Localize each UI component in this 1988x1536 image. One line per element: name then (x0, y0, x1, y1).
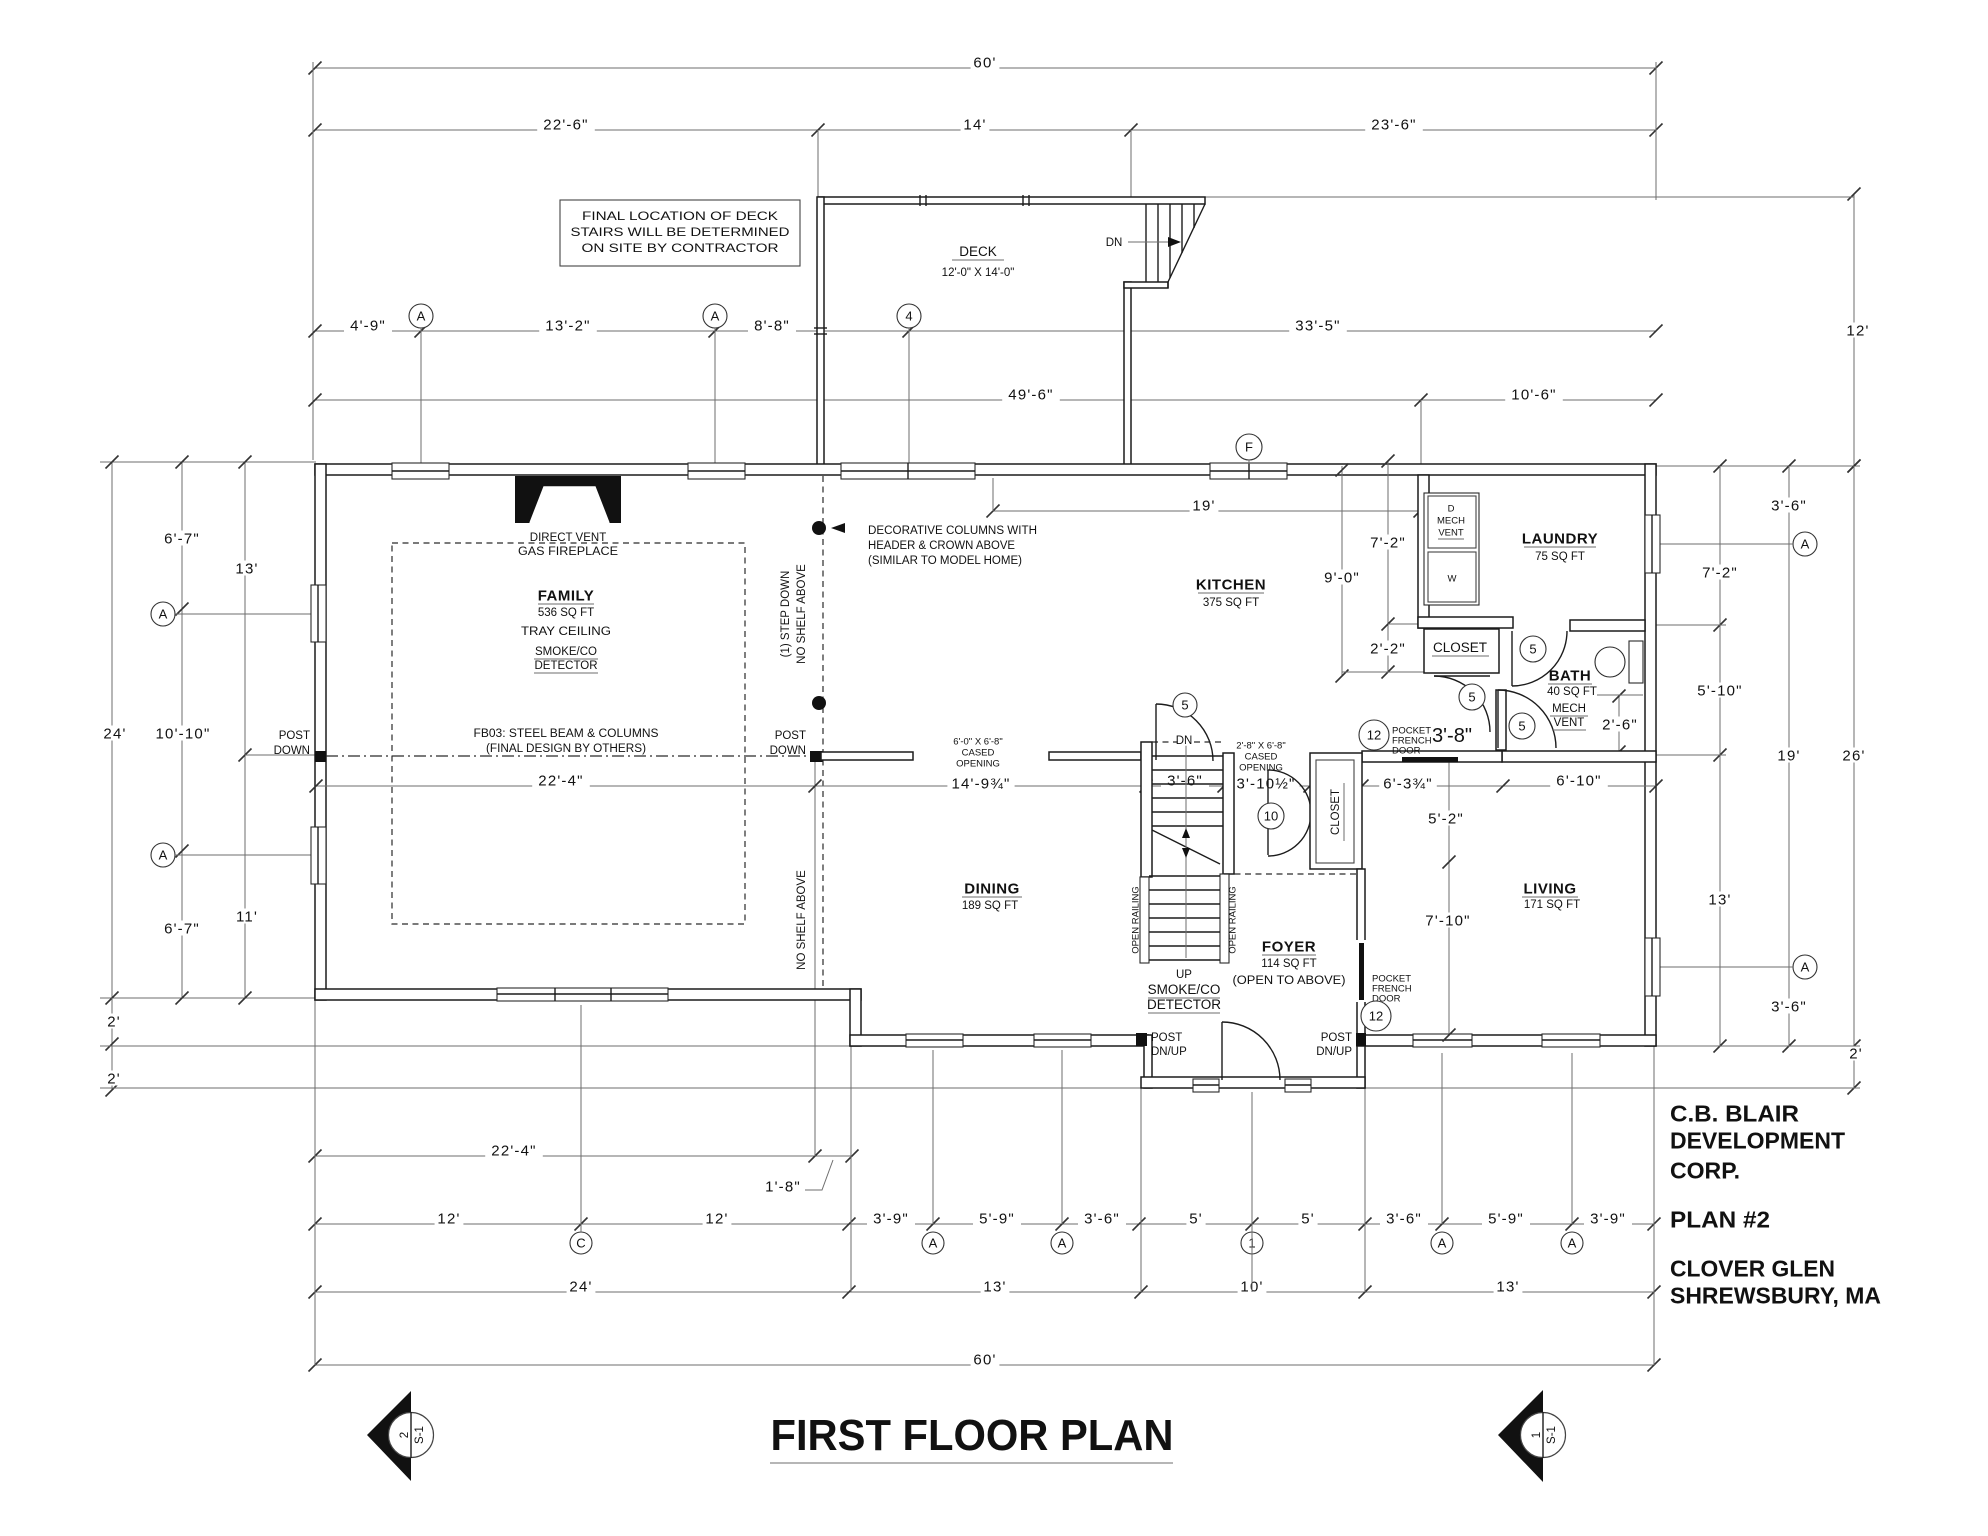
svg-text:6'-10": 6'-10" (1556, 772, 1601, 789)
window right wall laundry (1645, 515, 1660, 573)
svg-text:(OPEN TO ABOVE): (OPEN TO ABOVE) (1233, 975, 1346, 987)
svg-text:FIRST FLOOR PLAN: FIRST FLOOR PLAN (771, 1411, 1174, 1460)
dimension: 12' right vertical (deck) (1853, 194, 1855, 466)
svg-text:7'-2": 7'-2" (1702, 564, 1738, 581)
witness line top-left corner (312, 62, 314, 460)
svg-text:5: 5 (1529, 642, 1536, 657)
svg-text:22'-4": 22'-4" (538, 772, 583, 789)
svg-text:FINAL LOCATION OF DECK: FINAL LOCATION OF DECK (582, 211, 778, 223)
svg-text:DN: DN (1176, 735, 1193, 747)
svg-text:2'-6": 2'-6" (1602, 716, 1638, 733)
extension line laundry bottom (1645, 624, 1726, 626)
svg-text:5': 5' (1189, 1210, 1203, 1227)
svg-text:19': 19' (1777, 747, 1800, 764)
svg-text:DIRECT VENT: DIRECT VENT (530, 532, 606, 544)
svg-text:D: D (1448, 503, 1455, 514)
svg-text:A: A (417, 309, 426, 324)
svg-text:5: 5 (1181, 698, 1188, 713)
window wide under deck (841, 463, 975, 479)
svg-text:189 SQ FT: 189 SQ FT (962, 900, 1018, 912)
house top wall (315, 464, 1656, 475)
svg-text:12'-0" X 14'-0": 12'-0" X 14'-0" (942, 267, 1015, 279)
svg-text:3'-9": 3'-9" (1590, 1210, 1626, 1227)
svg-text:DN: DN (1106, 237, 1123, 249)
grid bubble A left 1 (151, 602, 175, 626)
svg-text:75 SQ FT: 75 SQ FT (1535, 551, 1585, 563)
svg-text:A: A (1801, 537, 1810, 552)
svg-text:OPEN RAILING: OPEN RAILING (1227, 886, 1238, 954)
svg-text:(SIMILAR TO MODEL HOME): (SIMILAR TO MODEL HOME) (868, 555, 1022, 567)
foyer bump left wall (1144, 1035, 1152, 1088)
svg-text:TRAY CEILING: TRAY CEILING (521, 626, 611, 638)
bottom witness lines (314, 1000, 316, 1365)
window family bottom (497, 988, 668, 1001)
dimension 7'-2" 2'-2" kitchen right (1387, 461, 1389, 672)
svg-text:NO SHELF ABOVE: NO SHELF ABOVE (796, 564, 808, 664)
svg-text:HEADER & CROWN ABOVE: HEADER & CROWN ABOVE (868, 540, 1015, 552)
dining bottom wall (850, 1035, 1148, 1046)
dimension row3 bottom: 60' (315, 1364, 1654, 1366)
svg-text:114 SQ FT: 114 SQ FT (1261, 958, 1316, 970)
cased opening label 2'-8" (1227, 740, 1296, 750)
deck stairs treads (1145, 204, 1147, 282)
svg-text:ON SITE BY CONTRACTOR: ON SITE BY CONTRACTOR (582, 243, 779, 255)
svg-text:FB03: STEEL BEAM & COLUMNS: FB03: STEEL BEAM & COLUMNS (474, 728, 659, 740)
right extension line top (1656, 465, 1860, 467)
stair direction arrows (1182, 828, 1190, 838)
svg-text:S-1: S-1 (1546, 1426, 1558, 1444)
svg-text:OPENING: OPENING (956, 758, 1000, 769)
svg-text:536 SQ FT: 536 SQ FT (538, 607, 594, 619)
stair treads lower flight (1149, 875, 1220, 877)
svg-text:VENT: VENT (1438, 527, 1464, 538)
svg-text:SHREWSBURY, MA: SHREWSBURY, MA (1670, 1282, 1881, 1308)
right extension line porch level (1365, 1087, 1860, 1089)
tray ceiling dashed outline (392, 543, 745, 924)
svg-text:24': 24' (569, 1278, 592, 1295)
svg-text:NO SHELF ABOVE: NO SHELF ABOVE (796, 870, 808, 970)
svg-text:13': 13' (983, 1278, 1006, 1295)
house right wall (1645, 464, 1656, 1046)
svg-text:PLAN #2: PLAN #2 (1670, 1206, 1770, 1232)
svg-text:2'-2": 2'-2" (1370, 640, 1406, 657)
basement stair door 5 (1155, 704, 1157, 760)
svg-text:171 SQ FT: 171 SQ FT (1524, 899, 1580, 911)
deck rail post marks (919, 195, 921, 206)
dimension 2'-6" bath (1618, 696, 1620, 752)
svg-text:9'-0": 9'-0" (1324, 569, 1360, 586)
svg-text:23'-6": 23'-6" (1371, 116, 1416, 133)
dimension row: 60 ft overall top (315, 67, 1656, 69)
grid bubble 4 top (897, 304, 921, 328)
svg-text:4'-9": 4'-9" (350, 317, 386, 334)
svg-text:A: A (1438, 1236, 1447, 1251)
svg-text:5'-10": 5'-10" (1697, 682, 1742, 699)
svg-text:VENT: VENT (1554, 717, 1585, 729)
stairwell left wall (1141, 742, 1152, 877)
window family top (392, 463, 449, 479)
svg-text:DINING: DINING (964, 880, 1020, 897)
extension line bath level (1656, 754, 1726, 756)
svg-text:SMOKE/CO: SMOKE/CO (535, 646, 597, 658)
decorative column dot 2 (812, 696, 826, 710)
svg-text:A: A (159, 848, 168, 863)
svg-text:12: 12 (1369, 1009, 1383, 1024)
note box: deck stairs note (560, 200, 800, 266)
bath door 5 top (1511, 631, 1513, 686)
stair open railing left (1140, 877, 1149, 963)
svg-text:A: A (1801, 960, 1810, 975)
svg-text:3'-6": 3'-6" (1167, 772, 1203, 789)
svg-text:6'-0" X 6'-8": 6'-0" X 6'-8" (953, 736, 1002, 747)
open railing labels (1130, 886, 1141, 954)
svg-text:12': 12' (437, 1210, 460, 1227)
grid bubble A right 2 (1793, 955, 1817, 979)
svg-text:2': 2' (107, 1070, 121, 1087)
svg-text:3'-6": 3'-6" (1386, 1210, 1422, 1227)
bath bottom wall (1502, 751, 1656, 762)
svg-text:8'-8": 8'-8" (754, 317, 790, 334)
deck top extension line (1205, 196, 1854, 198)
window kitchen F (1210, 463, 1287, 479)
svg-text:POST: POST (1321, 1032, 1352, 1044)
svg-text:13': 13' (1496, 1278, 1519, 1295)
svg-text:DOWN: DOWN (770, 745, 806, 757)
svg-text:7'-10": 7'-10" (1425, 912, 1470, 929)
deck stair bottom landing edge (1124, 282, 1168, 288)
dimension 5'-2" and 7'-10" living hall (1448, 752, 1450, 1035)
closet door 5 arc (1434, 676, 1490, 732)
laundry left wall (1418, 475, 1429, 628)
svg-text:(FINAL DESIGN BY OTHERS): (FINAL DESIGN BY OTHERS) (486, 743, 646, 755)
svg-text:2'-8" X 6'-8": 2'-8" X 6'-8" (1236, 740, 1285, 751)
svg-text:DECORATIVE COLUMNS WITH: DECORATIVE COLUMNS WITH (868, 525, 1037, 537)
dimension row: 22'-6" / 14' / 23'-6" (315, 129, 1656, 131)
svg-text:A: A (159, 607, 168, 622)
pocket french door 12 lower (1356, 940, 1366, 1002)
witness kitchen right wall (1420, 400, 1422, 466)
dimension row: 4'-9" / 13'-2" / 8'-8" / 33'-5" (315, 330, 1656, 332)
svg-text:14': 14' (963, 116, 986, 133)
svg-text:12: 12 (1367, 728, 1381, 743)
svg-text:LAUNDRY: LAUNDRY (1522, 530, 1598, 547)
svg-text:1'-8": 1'-8" (765, 1178, 801, 1195)
foyer bump front wall (1141, 1077, 1365, 1088)
svg-text:12': 12' (1846, 322, 1869, 339)
svg-text:OPEN RAILING: OPEN RAILING (1130, 886, 1141, 954)
step down rotated text (780, 571, 792, 658)
svg-text:7'-2": 7'-2" (1370, 534, 1406, 551)
svg-text:S-1: S-1 (414, 1426, 426, 1444)
svg-text:60': 60' (973, 1351, 996, 1368)
post dn/up left (1136, 1033, 1147, 1046)
svg-text:CLOVER GLEN: CLOVER GLEN (1670, 1255, 1835, 1281)
svg-text:KITCHEN: KITCHEN (1196, 576, 1266, 593)
svg-text:22'-6": 22'-6" (543, 116, 588, 133)
bath left wall (1496, 690, 1506, 750)
svg-text:2': 2' (1849, 1045, 1863, 1062)
svg-text:49'-6": 49'-6" (1008, 386, 1053, 403)
laundry bottom wall (1418, 617, 1513, 628)
grid bubble C bottom (570, 1232, 592, 1254)
svg-text:375 SQ FT: 375 SQ FT (1203, 597, 1259, 609)
dimension row2 bottom: 24' 13' 10' 13' (315, 1291, 1654, 1293)
svg-text:5: 5 (1518, 719, 1525, 734)
living bottom wall (1357, 1035, 1656, 1046)
window top grid A2 (688, 463, 745, 479)
right dim vertical 3'-6" 19' 3'-6" (1788, 466, 1790, 1046)
grid bubble A left 2 (151, 843, 175, 867)
stair break diagonal (1152, 830, 1220, 864)
svg-text:10'-6": 10'-6" (1511, 386, 1556, 403)
svg-text:STAIRS WILL BE DETERMINED: STAIRS WILL BE DETERMINED (571, 227, 790, 239)
svg-text:C.B. BLAIR: C.B. BLAIR (1670, 1100, 1799, 1126)
svg-text:F: F (1245, 440, 1253, 455)
stairwell right wall (1223, 753, 1234, 874)
dimension row: 22'-4" / 1'-8" lower (315, 1155, 852, 1157)
svg-text:DEVELOPMENT: DEVELOPMENT (1670, 1127, 1845, 1153)
window dining bottom 2 (1034, 1034, 1091, 1047)
stair walk line (1185, 742, 1187, 958)
svg-text:5'-9": 5'-9" (979, 1210, 1015, 1227)
svg-text:GAS FIREPLACE: GAS FIREPLACE (518, 546, 618, 558)
svg-text:DECK: DECK (959, 244, 997, 259)
no shelf above rotated text lower (796, 870, 808, 970)
svg-text:14'-9¾": 14'-9¾" (951, 775, 1010, 792)
bath-hall door 5 (1497, 690, 1499, 748)
window foyer sidelight right (1285, 1079, 1311, 1092)
svg-text:DOWN: DOWN (274, 745, 310, 757)
svg-text:DETECTOR: DETECTOR (534, 660, 597, 672)
svg-text:OPENING: OPENING (1239, 762, 1283, 773)
svg-text:5'-2": 5'-2" (1428, 810, 1464, 827)
svg-text:3'-6": 3'-6" (1771, 497, 1807, 514)
laundry appliance W (1428, 552, 1476, 602)
foyer open-above dashed line (1224, 873, 1358, 875)
svg-text:CORP.: CORP. (1670, 1157, 1740, 1183)
svg-text:LIVING: LIVING (1523, 880, 1576, 897)
post down left (315, 751, 326, 762)
svg-text:BATH: BATH (1549, 667, 1592, 684)
family room bottom wall (315, 989, 861, 1000)
kitchen-dining wall west segment (821, 752, 913, 760)
post dn/up right (1356, 1033, 1366, 1046)
svg-text:CASED: CASED (962, 747, 995, 758)
svg-text:DN/UP: DN/UP (1151, 1046, 1187, 1058)
witness deck left (817, 130, 819, 197)
svg-text:3'-6": 3'-6" (1771, 998, 1807, 1015)
dimension 9'-0" kitchen (1341, 466, 1343, 676)
svg-text:FAMILY: FAMILY (538, 587, 595, 604)
svg-text:FOYER: FOYER (1262, 938, 1316, 955)
laundry appliance D mech vent (1424, 493, 1479, 605)
svg-text:DN/UP: DN/UP (1316, 1046, 1352, 1058)
svg-text:6'-7": 6'-7" (164, 920, 200, 937)
svg-text:POST: POST (1151, 1032, 1182, 1044)
dimension: 19' kitchen width (993, 510, 1420, 512)
svg-text:(1) STEP DOWN: (1) STEP DOWN (780, 571, 792, 658)
svg-text:2: 2 (399, 1432, 411, 1438)
grid bubble A top 1 (409, 304, 433, 328)
svg-text:UP: UP (1176, 969, 1192, 981)
kitchen closet walls (1424, 629, 1499, 673)
stair open railing right (1220, 874, 1229, 963)
svg-text:A: A (1568, 1236, 1577, 1251)
svg-text:60': 60' (973, 54, 996, 71)
svg-text:CLOSET: CLOSET (1330, 789, 1342, 835)
svg-text:6'-7": 6'-7" (164, 530, 200, 547)
svg-text:CASED: CASED (1245, 751, 1278, 762)
section marker triangle 2/S-1 (367, 1391, 411, 1481)
steel beam center line (326, 755, 810, 757)
foyer closet (1310, 753, 1362, 869)
svg-text:DETECTOR: DETECTOR (1147, 997, 1221, 1012)
deck stair diagonal cut (1168, 204, 1205, 282)
svg-text:A: A (929, 1236, 938, 1251)
svg-text:5': 5' (1301, 1210, 1315, 1227)
left 2' dimensions (111, 998, 113, 1090)
svg-text:11': 11' (236, 908, 258, 925)
svg-text:SMOKE/CO: SMOKE/CO (1148, 982, 1221, 997)
svg-text:POST: POST (279, 730, 310, 742)
svg-text:40 SQ FT: 40 SQ FT (1547, 686, 1597, 698)
svg-text:MECH: MECH (1552, 703, 1586, 715)
window right wall living (1645, 938, 1660, 996)
window dining bottom 1 (906, 1034, 963, 1047)
foyer right wall (1357, 869, 1365, 1046)
svg-text:DOOR: DOOR (1392, 745, 1421, 756)
svg-text:1: 1 (1531, 1432, 1543, 1438)
svg-text:6'-3¾": 6'-3¾" (1383, 775, 1433, 792)
bath toilet (1595, 647, 1625, 677)
decorative column dot 1 (812, 521, 826, 535)
svg-text:MECH: MECH (1437, 515, 1465, 526)
step wall family-dining (850, 989, 861, 1046)
stair top dashed line and DN (1152, 741, 1223, 743)
svg-text:3'-8": 3'-8" (1432, 725, 1472, 747)
svg-text:10: 10 (1264, 809, 1278, 824)
svg-text:13': 13' (1708, 891, 1731, 908)
svg-text:5'-9": 5'-9" (1488, 1210, 1524, 1227)
witness deck stair right (1130, 130, 1132, 197)
svg-text:33'-5": 33'-5" (1295, 317, 1340, 334)
window left wall upper (311, 585, 326, 642)
window living bottom 2 (1542, 1034, 1600, 1047)
svg-text:13'-2": 13'-2" (545, 317, 590, 334)
right extension line bottom (1656, 1045, 1860, 1047)
section marker triangle 1/S-1 (1498, 1390, 1543, 1482)
svg-text:22'-4": 22'-4" (491, 1142, 536, 1159)
svg-text:W: W (1448, 573, 1457, 584)
witness line top-right corner (1655, 62, 1657, 200)
svg-text:3'-10½": 3'-10½" (1236, 775, 1295, 792)
extension line dining floor level (100, 1045, 861, 1047)
svg-text:A: A (1058, 1236, 1067, 1251)
svg-text:3'-6": 3'-6" (1084, 1210, 1120, 1227)
front door (1221, 1022, 1223, 1080)
window living bottom 1 (1413, 1034, 1472, 1047)
grid bubbles bottom row1 (922, 1232, 944, 1254)
grid bubble F (1236, 434, 1262, 460)
step down dashed line (822, 476, 824, 988)
svg-text:5: 5 (1468, 690, 1475, 705)
svg-text:13': 13' (235, 560, 258, 577)
svg-text:2': 2' (107, 1013, 121, 1030)
svg-text:CLOSET: CLOSET (1433, 640, 1487, 655)
svg-text:3'-9": 3'-9" (873, 1210, 909, 1227)
dimension row1 bottom: 12' 12' | 3'-9" 5'-9" 3'-6" 5' 5' 3'-6" 5'-9" 3'-9" (315, 1223, 1654, 1225)
house left wall (315, 464, 326, 1000)
dimension row: 49'-6" / 10'-6" (315, 399, 1656, 401)
grid bubble A top 2 (703, 304, 727, 328)
svg-text:26': 26' (1842, 747, 1865, 764)
svg-text:19': 19' (1192, 497, 1215, 514)
door 10 half swing (1267, 770, 1269, 855)
svg-text:C: C (576, 1236, 585, 1251)
bath top wall (1570, 620, 1645, 631)
fireplace direct vent (515, 476, 621, 523)
dimension row mid: 22'-4" 14'-9 3/4" 3'-6" ... (316, 785, 1656, 787)
stair treads upper flight (1152, 755, 1223, 757)
grid bubble A right 1 (1793, 532, 1817, 556)
extension line porch/foyer front (100, 1087, 1148, 1089)
kitchen-dining wall east segment (1049, 752, 1141, 760)
left dimension verticals 24' / 6'-7" 10'-10" 6'-7" / 13' 11' (111, 462, 113, 998)
svg-text:24': 24' (103, 725, 126, 742)
deck right wall below stairs (1124, 282, 1131, 467)
deck left rail (817, 197, 824, 467)
deck top rail (818, 197, 1205, 204)
window left wall lower (311, 827, 326, 884)
svg-text:12': 12' (705, 1210, 728, 1227)
post down right (810, 751, 823, 762)
window foyer sidelight left (1193, 1079, 1219, 1092)
foyer bump right wall (1357, 1035, 1365, 1088)
svg-text:10'-10": 10'-10" (156, 725, 211, 742)
pocket french door 12 upper (1402, 757, 1458, 762)
svg-text:4: 4 (905, 309, 912, 324)
right dim vertical 26' (1853, 466, 1855, 1088)
right dim vertical 7'-2" 5'-10" 13' (1719, 466, 1721, 1046)
hall south wall with pocket door (1362, 751, 1502, 762)
svg-text:POST: POST (775, 730, 806, 742)
svg-text:A: A (711, 309, 720, 324)
